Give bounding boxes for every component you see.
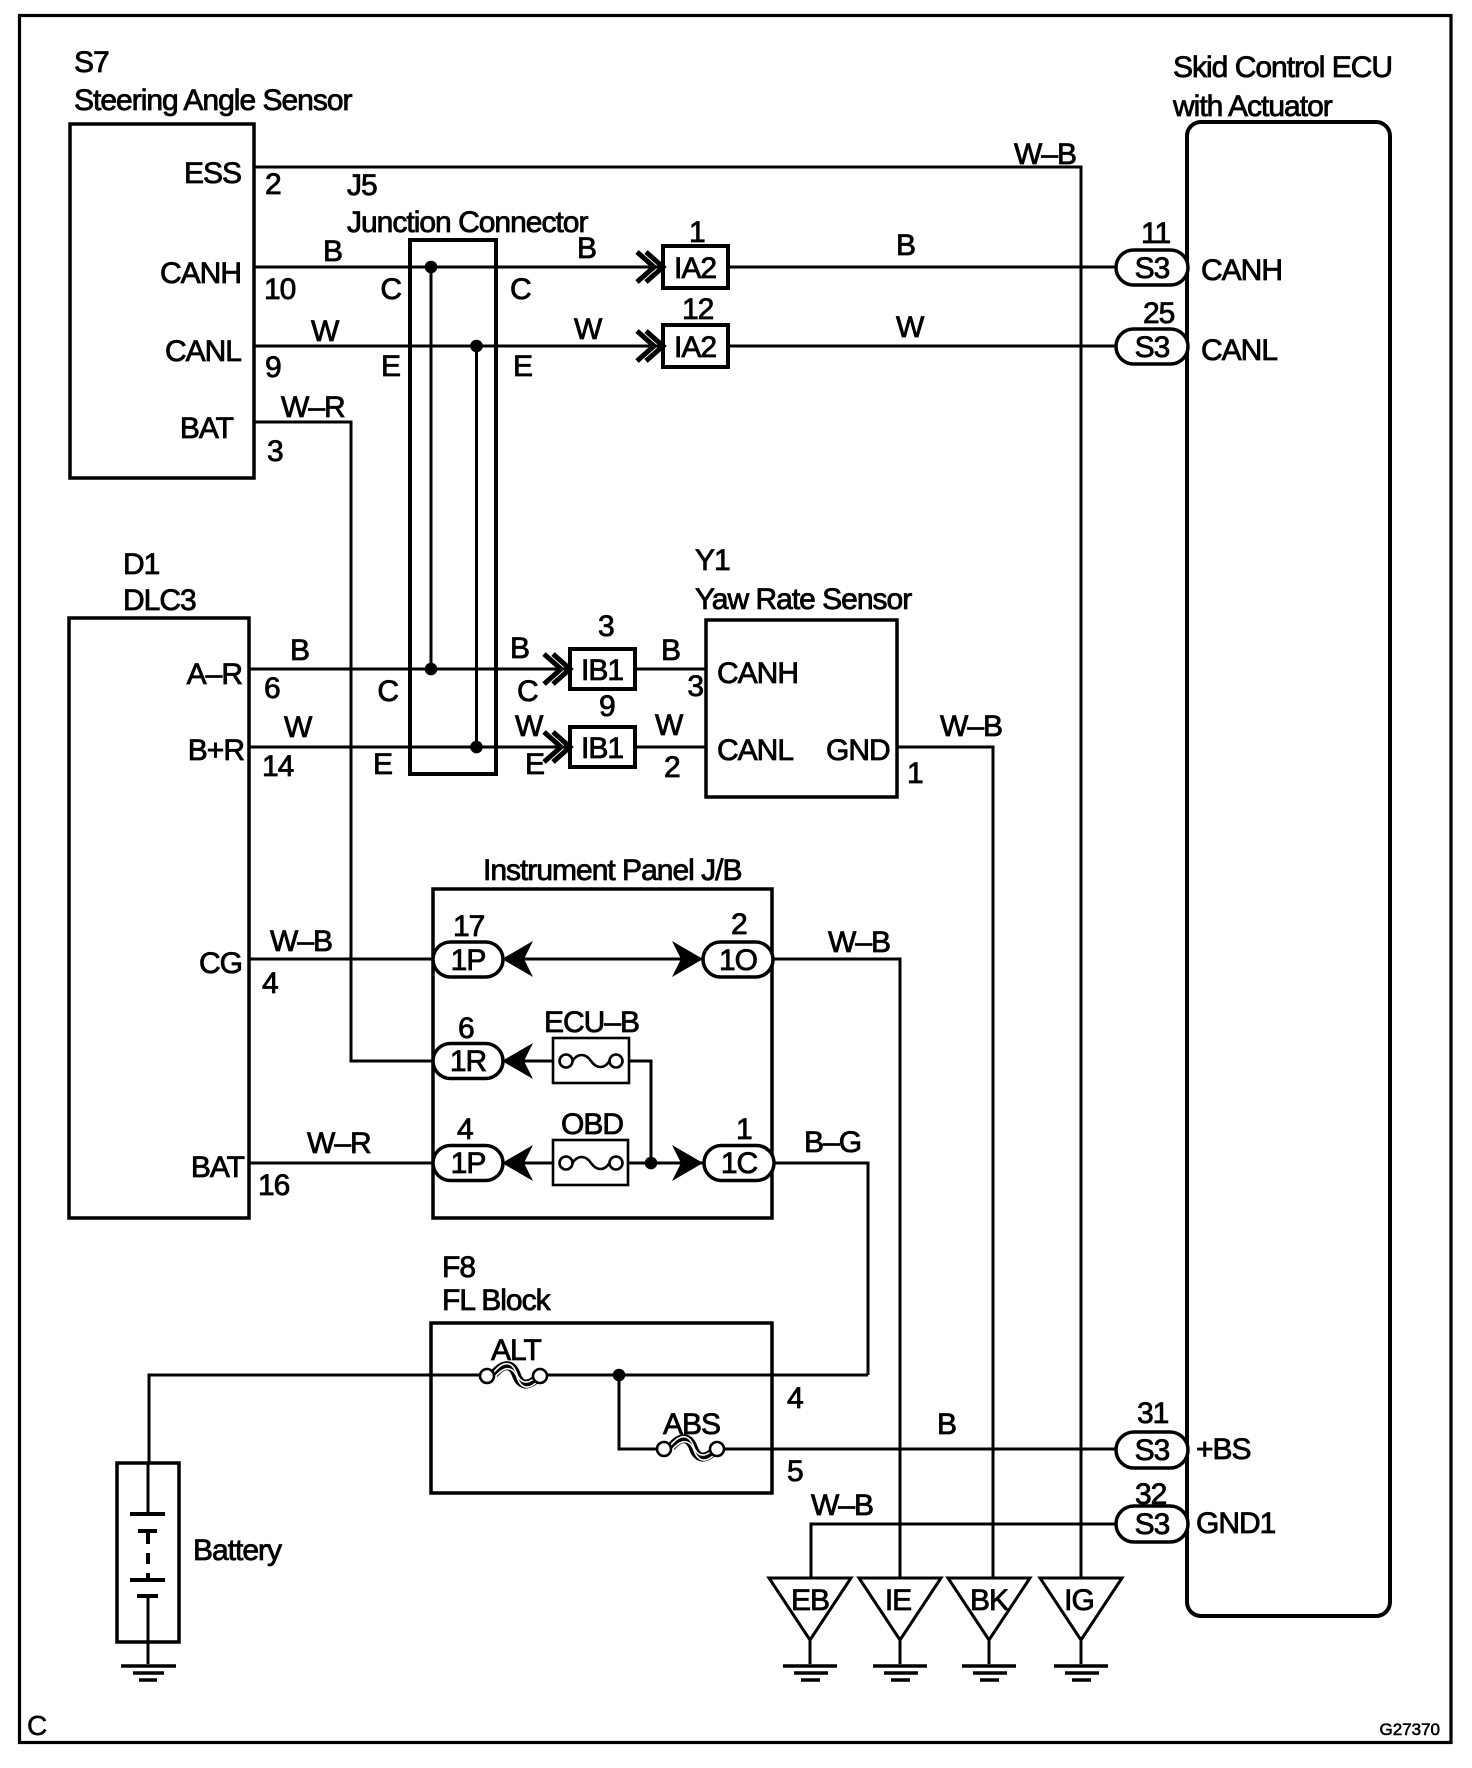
svg-text:W: W [515, 710, 544, 743]
svg-text:4: 4 [787, 1382, 803, 1415]
svg-text:C: C [510, 273, 531, 306]
svg-text:W–B: W–B [940, 710, 1002, 743]
svg-text:S3: S3 [1135, 1434, 1170, 1467]
svg-text:CG: CG [199, 947, 242, 980]
svg-text:17: 17 [453, 910, 485, 943]
svg-text:CANL: CANL [165, 335, 241, 368]
svg-text:E: E [373, 748, 392, 781]
svg-text:GND: GND [826, 734, 890, 767]
svg-text:A–R: A–R [187, 658, 243, 691]
svg-text:CANH: CANH [1201, 254, 1282, 287]
svg-text:E: E [525, 748, 544, 781]
svg-text:G27370: G27370 [1380, 1720, 1441, 1739]
svg-text:C: C [380, 273, 401, 306]
svg-text:EB: EB [791, 1584, 829, 1617]
svg-text:+BS: +BS [1196, 1433, 1251, 1466]
svg-text:12: 12 [682, 293, 714, 326]
svg-text:1: 1 [689, 216, 705, 249]
svg-text:BAT: BAT [191, 1151, 245, 1184]
svg-text:W: W [574, 313, 603, 346]
svg-text:6: 6 [458, 1012, 474, 1045]
svg-text:B: B [896, 229, 915, 262]
svg-text:W: W [284, 711, 313, 744]
svg-text:11: 11 [1141, 217, 1170, 250]
svg-text:C: C [517, 675, 538, 708]
svg-text:Skid Control ECU: Skid Control ECU [1173, 51, 1392, 84]
svg-text:W: W [896, 311, 925, 344]
svg-text:9: 9 [599, 690, 615, 723]
svg-text:2: 2 [731, 908, 747, 941]
svg-text:CANL: CANL [1201, 334, 1277, 367]
svg-text:1O: 1O [719, 944, 757, 977]
svg-text:GND1: GND1 [1196, 1507, 1276, 1540]
svg-text:31: 31 [1137, 1397, 1169, 1430]
svg-text:Instrument Panel J/B: Instrument Panel J/B [483, 854, 741, 887]
svg-text:S3: S3 [1135, 331, 1170, 364]
svg-text:B: B [577, 232, 596, 265]
svg-text:10: 10 [264, 273, 296, 306]
svg-text:W–R: W–R [281, 391, 345, 424]
svg-text:IB1: IB1 [581, 654, 623, 687]
svg-text:B–G: B–G [804, 1126, 861, 1159]
svg-text:W–B: W–B [1014, 138, 1076, 171]
svg-text:S3: S3 [1135, 252, 1170, 285]
svg-text:B: B [661, 634, 680, 667]
svg-text:1: 1 [907, 757, 923, 790]
svg-text:14: 14 [262, 750, 294, 783]
svg-text:1P: 1P [451, 944, 486, 977]
svg-text:W–B: W–B [811, 1489, 873, 1522]
svg-text:IE: IE [885, 1584, 911, 1617]
svg-text:FL Block: FL Block [442, 1284, 552, 1317]
svg-text:ABS: ABS [663, 1408, 720, 1441]
svg-text:DLC3: DLC3 [123, 584, 196, 617]
svg-text:Yaw Rate Sensor: Yaw Rate Sensor [695, 583, 912, 616]
svg-text:3: 3 [598, 610, 614, 643]
svg-text:Steering Angle Sensor: Steering Angle Sensor [74, 84, 353, 117]
svg-text:2: 2 [265, 168, 281, 201]
svg-text:OBD: OBD [561, 1108, 623, 1141]
svg-text:S3: S3 [1135, 1508, 1170, 1541]
svg-text:9: 9 [265, 351, 281, 384]
svg-text:CANH: CANH [160, 257, 241, 290]
svg-text:Battery: Battery [193, 1534, 282, 1567]
svg-text:16: 16 [258, 1169, 290, 1202]
svg-text:IB1: IB1 [581, 732, 623, 765]
svg-text:BK: BK [970, 1584, 1009, 1617]
svg-text:4: 4 [457, 1113, 473, 1146]
svg-text:E: E [513, 350, 532, 383]
svg-text:with Actuator: with Actuator [1172, 90, 1333, 123]
svg-text:F8: F8 [442, 1251, 475, 1284]
svg-text:B+R: B+R [188, 734, 245, 767]
svg-text:1: 1 [736, 1113, 752, 1146]
svg-text:W: W [655, 709, 684, 742]
svg-text:2: 2 [664, 751, 680, 784]
svg-text:C: C [27, 1710, 47, 1741]
svg-text:BAT: BAT [180, 412, 234, 445]
svg-text:B: B [937, 1408, 956, 1441]
svg-text:W: W [311, 315, 340, 348]
svg-text:W–R: W–R [307, 1127, 371, 1160]
svg-text:B: B [323, 235, 342, 268]
svg-text:CANL: CANL [717, 734, 793, 767]
svg-text:B: B [510, 632, 529, 665]
svg-text:6: 6 [264, 672, 280, 705]
svg-text:E: E [381, 350, 400, 383]
svg-text:1R: 1R [450, 1045, 487, 1078]
svg-text:1P: 1P [451, 1147, 486, 1180]
svg-text:1C: 1C [721, 1147, 758, 1180]
svg-text:ESS: ESS [184, 157, 241, 190]
svg-text:D1: D1 [123, 548, 160, 581]
svg-text:3: 3 [267, 435, 283, 468]
svg-text:S7: S7 [74, 46, 109, 79]
svg-text:J5: J5 [347, 169, 377, 202]
svg-text:IA2: IA2 [674, 331, 716, 364]
svg-text:IG: IG [1064, 1584, 1094, 1617]
svg-text:ECU–B: ECU–B [544, 1006, 639, 1039]
svg-text:3: 3 [687, 670, 703, 703]
svg-text:25: 25 [1143, 297, 1175, 330]
svg-text:W–B: W–B [828, 926, 890, 959]
svg-text:5: 5 [787, 1455, 803, 1488]
svg-text:ALT: ALT [491, 1334, 541, 1367]
svg-text:4: 4 [262, 967, 278, 1000]
svg-text:IA2: IA2 [674, 252, 716, 285]
svg-text:B: B [290, 634, 309, 667]
svg-text:CANH: CANH [717, 657, 798, 690]
svg-text:W–B: W–B [270, 925, 332, 958]
svg-text:Y1: Y1 [695, 544, 730, 577]
svg-text:Junction Connector: Junction Connector [347, 206, 588, 239]
svg-text:C: C [377, 675, 398, 708]
svg-text:32: 32 [1135, 1478, 1167, 1511]
